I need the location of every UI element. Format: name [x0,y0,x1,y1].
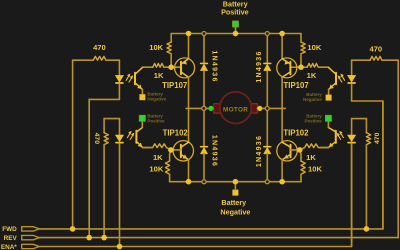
svg-text:MOTOR: MOTOR [223,106,248,113]
junction on top rail at battery positive [233,31,239,37]
label TIP107 left [162,81,187,90]
label 1N4936 right-lower [256,135,263,167]
opto U2 light arrows [127,131,134,140]
label 1N4936 left-lower [210,135,217,167]
label 1K left-bottom [153,153,163,162]
junction on bottom rail at battery negative [233,179,239,185]
wire LED3 cathode return [352,101,383,229]
wire PT4 emitter to 1K [320,147,328,149]
opto U2 phototransistor left-bottom [136,128,142,148]
opto U4 phototransistor right-bottom [328,128,336,148]
svg-text:10K: 10K [308,165,322,174]
node Battery Negative port [232,182,238,196]
wire right diode chain lower [266,108,268,146]
resistor 470 left-top [73,56,120,60]
port ENA* tag [22,244,40,248]
wire left lower diode anode to bottom rail [203,153,205,181]
junction top rail / left TIP107 emitter [186,31,192,37]
wire right TIP107 collector to motor [281,77,283,108]
svg-text:Positive: Positive [305,118,323,123]
resistor 470 right-bottom (vertical) [366,119,370,229]
label 1K right-top [307,71,317,80]
label battery positive left-bottom [147,113,165,123]
diode D1 1N4936 left-upper [200,63,207,70]
svg-text:470: 470 [369,45,382,54]
svg-text:Negative: Negative [147,96,166,101]
wire left TIP107 base [171,66,181,68]
label 10K right-bottom [308,165,322,174]
wire motor node to right TIP102 collector [281,108,283,142]
pin right diode chain on motor wire [265,106,269,110]
svg-text:1N4936: 1N4936 [210,50,217,82]
svg-text:1N4936: 1N4936 [210,135,217,167]
label TIP102 right [283,128,309,137]
svg-text:ENA*: ENA* [1,244,17,250]
wire FWD riser left [72,60,74,229]
label TIP107 right [284,81,309,90]
label battery negative left-top [147,91,166,101]
opto U3 phototransistor right-top [329,68,336,90]
wire PT4 collector to battery-positive port [327,121,329,127]
pin left diode chain on motor wire [202,106,206,110]
label 470 right-bottom [374,132,381,144]
node motor-left terminal (green) [208,106,213,111]
resistor 1K left-bottom [143,144,171,150]
wire left TIP107 collector to motor [188,77,190,108]
wire PT1 emitter to battery-negative port [141,89,143,94]
pin right upper diode cathode on rail [265,32,269,36]
svg-text:10K: 10K [149,165,163,174]
label Battery Positive [221,0,249,17]
wire right TIP107 base [290,66,301,68]
label battery positive right-bottom [305,113,323,123]
junction bottom rail / right TIP102 emitter [279,179,285,185]
svg-text:1K: 1K [306,153,316,162]
junction left TIP102 base node [168,147,174,153]
label TIP102 left [163,128,189,137]
pin motor-left lead [202,106,206,110]
svg-text:470: 470 [93,133,100,145]
svg-text:Battery: Battery [221,198,246,207]
svg-text:Positive: Positive [147,118,165,123]
wire right lower diode anode to bottom rail [266,153,268,181]
port FWD tag [22,227,40,231]
wire ENA* line [39,144,351,247]
wire PT2 collector to battery-positive port [141,121,143,127]
wire right diode chain upper [266,34,268,64]
node Battery Positive port [233,21,239,34]
pin left upper diode cathode on rail [202,32,206,36]
wire right TIP102 emitter [281,160,283,182]
wire left emitter riser [188,34,190,59]
junction FWD / right 470 riser [364,226,370,232]
svg-text:Positive: Positive [221,8,249,17]
label 1N4936 left-upper [210,50,217,82]
label 470 left-bottom [93,133,100,145]
svg-text:1N4936: 1N4936 [256,50,263,82]
label 1K right-bottom [306,153,316,162]
node battery-positive port left-bottom [139,115,145,121]
resistor 1K right-top [301,63,329,67]
junction REV / LED1 return [86,235,92,241]
opto U3 light arrows [338,74,345,83]
svg-text:1K: 1K [154,71,164,80]
label ENA* [1,244,17,250]
opto U1 LED left-top [115,60,123,99]
svg-text:470: 470 [374,132,381,144]
pin right lower diode on bottom rail [265,180,269,184]
diode D4 1N4936 right-lower [264,147,271,154]
opto U2 LED left-bottom [116,119,124,247]
resistor 10K right-bottom [300,150,306,182]
wire REV line [39,60,398,237]
junction right TIP107 base node [298,64,304,70]
diode D3 1N4936 right-upper [264,63,271,70]
transistor Q3 TIP107 right (PNP) [277,58,297,78]
junction left TIP107 base node [168,64,174,70]
label 10K left-top [149,43,163,52]
opto U1 phototransistor left-top [135,68,142,90]
svg-text:TIP102: TIP102 [163,128,189,137]
wire LED1 cathode return [89,99,119,237]
diode D2 1N4936 left-lower [200,147,207,154]
label FWD [2,226,17,233]
wire PT3 emitter to battery-negative port [328,89,330,94]
wire PT2 emitter to 1K [143,147,151,149]
svg-text:10K: 10K [149,43,163,52]
resistor 10K right-top [301,34,305,68]
svg-text:REV: REV [4,235,18,242]
resistor 10K left-top [167,34,171,68]
label REV [4,235,18,242]
junction FWD / left riser [70,226,76,232]
opto U3 LED right-top [348,60,356,101]
svg-text:TIP107: TIP107 [162,81,187,90]
wire right emitter riser [281,34,283,59]
label 10K left-bottom [149,165,163,174]
node battery-positive port right-bottom [325,115,331,121]
svg-text:Negative: Negative [303,97,322,102]
wire left upper diode anode to motor [203,71,205,109]
resistor 1K left-top [142,63,171,67]
wire opto2 top link [104,118,119,120]
svg-text:1K: 1K [307,71,317,80]
transistor Q4 TIP102 right (NPN) [277,141,297,161]
junction ENA* / LED2 cathode [117,244,123,250]
wire left TIP102 base [171,149,181,151]
wire left TIP102 emitter [188,160,190,182]
label 470 left-top [93,43,106,52]
node motor-right terminal (yellow) [257,106,262,111]
resistor 470 right-top [352,56,399,60]
svg-text:FWD: FWD [2,226,17,233]
pin left lower diode on bottom rail [202,180,206,184]
wire left diode chain lower [203,108,205,146]
wire motor node to left TIP102 collector [188,108,190,142]
opto U1 light arrows [126,74,133,83]
wire FWD line [39,101,383,229]
label 1K left-top [154,71,164,80]
label Battery Negative [220,198,250,217]
label battery negative right-top [303,92,322,102]
motor M1 body [214,92,258,124]
wire motor-left T-junction [186,107,188,109]
wire bottom battery-negative rail [170,181,301,183]
svg-text:Negative: Negative [220,207,250,216]
svg-text:1K: 1K [153,153,163,162]
resistor 10K left-bottom [165,150,171,182]
svg-text:1N4936: 1N4936 [256,135,263,167]
port REV tag [22,235,40,239]
opto U4 LED right-bottom [348,119,356,247]
opto U4 light arrows [337,131,344,140]
svg-text:TIP107: TIP107 [284,81,309,90]
wire opto4 top link [352,118,367,120]
junction right TIP102 base node [297,147,303,153]
junction REV / left 470 riser [101,235,107,241]
junction bottom rail / left TIP102 emitter [186,179,192,185]
transistor Q2 TIP102 left (NPN) [173,141,193,161]
label 470 right-top [369,45,382,54]
svg-text:470: 470 [93,43,106,52]
wire right TIP102 base [291,149,300,151]
label 10K right-top [307,43,321,52]
node battery-negative port left-top [139,94,145,100]
svg-text:10K: 10K [307,43,321,52]
wire left diode chain upper [203,34,205,64]
label 1N4936 right-upper [256,50,263,82]
junction top rail / right TIP107 emitter [279,31,285,37]
resistor 1K right-bottom [300,144,329,150]
transistor Q1 TIP107 left (PNP) [175,58,195,78]
wire top battery-positive rail [171,33,301,35]
node battery-negative port right-top [326,95,332,101]
wire motor-right T-junction [282,107,285,109]
wire motor-left lead [189,107,214,109]
wire right upper diode anode to motor [266,71,268,109]
wire motor-right lead [257,107,282,109]
svg-text:TIP102: TIP102 [283,128,309,137]
resistor 470 left-bottom (vertical) [104,119,108,238]
